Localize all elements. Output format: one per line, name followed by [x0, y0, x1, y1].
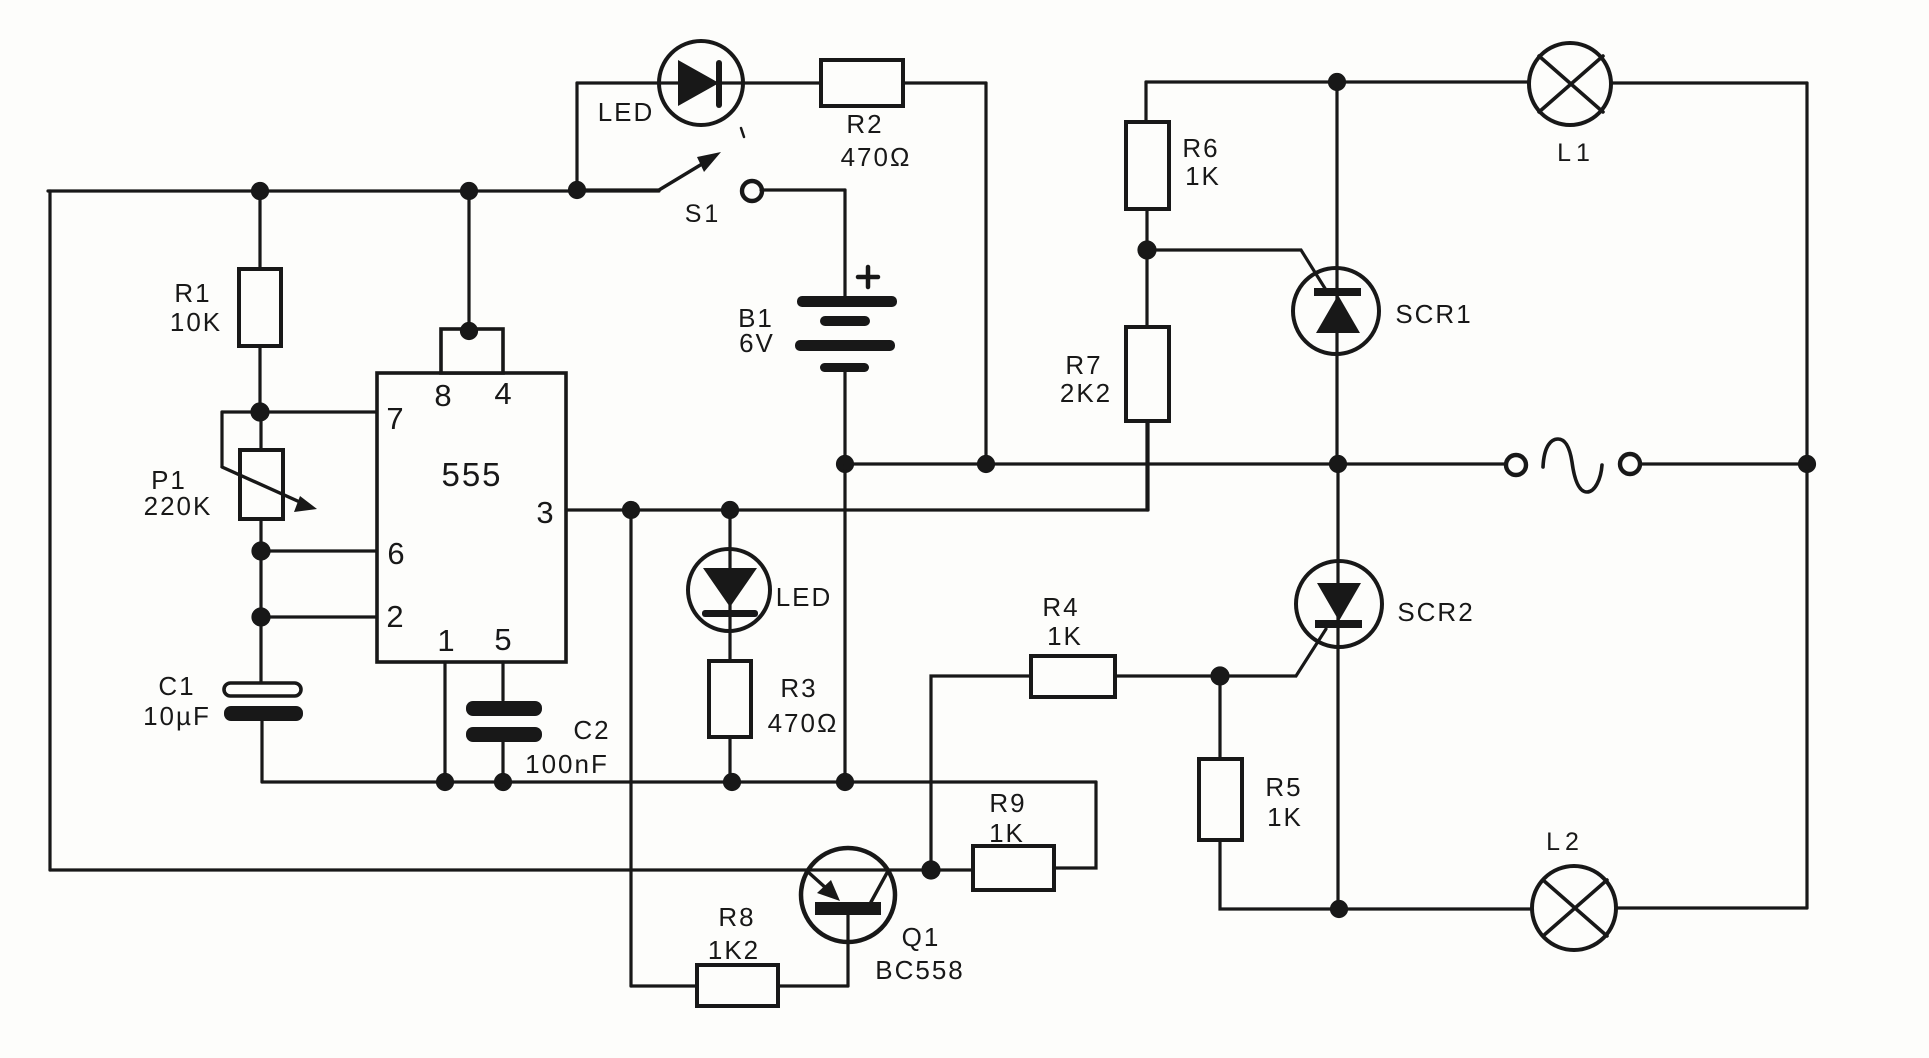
svg-text:Q1: Q1	[902, 922, 941, 952]
wire L2 right lead	[1616, 906, 1807, 909]
svg-text:R7: R7	[1065, 350, 1102, 380]
svg-text:555: 555	[441, 456, 502, 493]
node junction pin3/R8 branch	[624, 503, 639, 518]
resistor R3	[709, 661, 751, 737]
svg-text:2: 2	[386, 599, 403, 634]
wire S1 to battery	[761, 188, 845, 191]
svg-text:R1: R1	[174, 278, 211, 308]
node junction pin3/LED branch	[723, 503, 738, 518]
label R5 value	[1265, 772, 1303, 832]
label C1 value	[143, 671, 211, 731]
resistor R6	[1126, 122, 1169, 209]
svg-text:R2: R2	[846, 109, 883, 139]
resistor R4	[1031, 656, 1115, 697]
svg-text:S1: S1	[685, 200, 722, 228]
stray mark	[741, 128, 744, 137]
wire 555 pin 5 lead	[501, 662, 504, 700]
wire P1 top lead	[259, 412, 262, 450]
wire R8 branch vertical	[629, 510, 632, 986]
switch S1 blade	[577, 188, 658, 191]
switch S1 contact	[742, 181, 762, 201]
svg-text:7: 7	[386, 401, 403, 436]
svg-text:R6: R6	[1182, 133, 1219, 163]
svg-text:1K: 1K	[989, 818, 1025, 848]
node junction rail/LED-S1	[570, 183, 585, 198]
svg-text:R9: R9	[989, 788, 1026, 818]
label R4 value	[1042, 592, 1083, 651]
svg-text:LED: LED	[776, 582, 833, 612]
wire R6 top lead	[1144, 82, 1147, 122]
label LED D2	[776, 582, 833, 612]
wire C1 top lead	[259, 617, 262, 682]
wire Q1 base lead	[846, 915, 849, 986]
wire 555 pin 2	[261, 615, 377, 618]
wire SCR column	[1337, 82, 1338, 909]
wire R5 bottom lead	[1220, 840, 1532, 909]
svg-text:470Ω: 470Ω	[768, 708, 839, 738]
node junction rail/R1	[253, 184, 268, 199]
node junction pin1/rail	[438, 775, 453, 790]
wire R2 right lead	[903, 81, 986, 84]
wire R2 drop to AC line	[984, 83, 987, 464]
node junction SCR column/AC	[1331, 457, 1346, 472]
wire AC feed line	[845, 462, 1506, 465]
wire LED D1 feed	[577, 81, 821, 84]
wire ground rail	[262, 780, 1096, 783]
wire LED D1 top corner	[575, 83, 578, 190]
wire R1 bottom lead	[258, 346, 261, 412]
lamp L2	[1532, 866, 1616, 950]
node junction pin2	[253, 609, 269, 625]
svg-text:LED: LED	[598, 97, 655, 127]
node junction rail/555 pins 8-4	[462, 184, 477, 199]
svg-text:3: 3	[536, 495, 553, 530]
label Q1 type	[875, 922, 965, 985]
svg-text:470Ω: 470Ω	[841, 142, 912, 172]
capacitor C1 (polarized)	[224, 683, 301, 696]
svg-text:4: 4	[494, 376, 511, 411]
svg-text:100nF: 100nF	[525, 749, 609, 779]
diode LED D1	[659, 41, 743, 125]
label R2 value	[841, 109, 912, 172]
node junction pin5/rail	[496, 775, 511, 790]
op-amp U1 555 IC body	[377, 329, 566, 662]
node junction pin7/P1	[252, 404, 268, 420]
svg-text:R8: R8	[718, 902, 755, 932]
svg-text:10µF: 10µF	[143, 701, 211, 731]
wire left outer vertical	[48, 191, 51, 870]
label R3 value	[768, 673, 839, 738]
resistor R1	[239, 269, 281, 346]
resistor R9	[973, 846, 1054, 890]
resistor R2	[821, 60, 903, 106]
wire pin3 riser to R7	[1146, 421, 1149, 510]
wire bottom loop (emitter rail)	[50, 868, 931, 871]
svg-text:BC558: BC558	[875, 955, 965, 985]
svg-text:C1: C1	[158, 671, 195, 701]
wire 555 pin 6	[261, 549, 377, 552]
potentiometer P1	[240, 450, 283, 519]
svg-text:R5: R5	[1265, 772, 1302, 802]
wire R4 left lead	[931, 676, 1031, 870]
wire R7 top lead	[1145, 250, 1148, 327]
label pin numbers	[386, 376, 553, 658]
label C2 value	[525, 715, 610, 779]
node junction right vertical/AC	[1800, 457, 1815, 472]
svg-text:2K2: 2K2	[1060, 378, 1112, 408]
capacitor C2	[466, 701, 542, 716]
node junction Q1 collector/R9	[923, 862, 939, 878]
label L1	[1557, 139, 1595, 167]
wire R9 right lead	[1054, 782, 1096, 868]
node junction SCR2/L2 wire	[1332, 902, 1347, 917]
wire R1 top lead	[258, 191, 261, 269]
wire top right rail right segment	[1611, 81, 1807, 84]
wire C2 bottom lead	[501, 742, 504, 782]
wire SCR1 gate	[1147, 250, 1326, 290]
svg-text:6V: 6V	[739, 328, 775, 358]
wire R6 bottom lead	[1145, 209, 1148, 250]
label R8 value	[708, 902, 760, 965]
label L2	[1546, 828, 1584, 856]
AC source sine	[1543, 439, 1602, 492]
label R7 value	[1060, 350, 1112, 408]
wire R8 right lead	[778, 984, 848, 987]
svg-text:SCR2: SCR2	[1397, 597, 1474, 627]
battery B1	[797, 296, 897, 307]
label SCR2	[1397, 597, 1474, 627]
node junction R4/R5/gate	[1212, 668, 1228, 684]
node junction pin6	[253, 543, 269, 559]
transistor SCR2	[1296, 561, 1382, 647]
wire 555 pin 7	[222, 410, 377, 413]
node junction tab	[462, 324, 477, 339]
svg-text:5: 5	[494, 622, 511, 657]
wire P1 wiper bypass	[220, 412, 223, 466]
wire AC to right vertical	[1641, 462, 1807, 465]
wire to pin2 level	[259, 551, 262, 617]
node junction B1/AC line	[838, 457, 853, 472]
AC source terminals	[1506, 455, 1526, 475]
label R9 value	[989, 788, 1027, 848]
potentiometer P1 wiper arrow	[222, 467, 302, 503]
wire 555 pin 3 output	[566, 508, 1148, 511]
wire LED D2 branch lead	[728, 510, 731, 661]
wire R5 top lead	[1218, 676, 1221, 759]
label 555	[441, 456, 502, 493]
wire R3 bottom lead	[728, 737, 731, 782]
svg-text:L2: L2	[1546, 828, 1584, 856]
node junction R2/AC line	[979, 457, 994, 472]
svg-text:220K: 220K	[144, 491, 213, 521]
svg-text:R4: R4	[1042, 592, 1079, 622]
node junction B1/rail	[838, 775, 853, 790]
transistor SCR1	[1293, 268, 1379, 354]
node junction R6/R7/gate	[1139, 242, 1155, 258]
wire R8 left lead	[631, 984, 697, 987]
wire B1 to ground rail	[843, 464, 846, 782]
svg-text:1K: 1K	[1047, 621, 1083, 651]
wire R9 left lead	[931, 868, 973, 871]
wire SCR2 gate	[1115, 629, 1326, 676]
svg-text:10K: 10K	[170, 307, 222, 337]
label R1 value	[170, 278, 222, 337]
svg-text:1K2: 1K2	[708, 935, 760, 965]
node junction R3/rail	[725, 775, 740, 790]
svg-text:L1: L1	[1557, 139, 1595, 167]
resistor R7	[1126, 327, 1169, 421]
lamp L1	[1529, 43, 1611, 125]
wire 555 supply lead pins 8-4	[467, 191, 470, 330]
wire right outer vertical	[1805, 83, 1808, 908]
svg-text:8: 8	[434, 378, 451, 413]
svg-text:1: 1	[437, 623, 454, 658]
svg-text:1K: 1K	[1185, 161, 1221, 191]
resistor R5	[1199, 759, 1242, 840]
label R6 value	[1182, 133, 1221, 191]
svg-text:6: 6	[387, 536, 404, 571]
svg-text:SCR1: SCR1	[1395, 299, 1472, 329]
wire C1 bottom lead	[260, 721, 263, 782]
svg-text:C2: C2	[573, 715, 610, 745]
label LED D1	[598, 97, 655, 127]
resistor R8	[697, 965, 778, 1006]
label SCR1	[1395, 299, 1472, 329]
label S1	[685, 200, 722, 228]
wire top supply rail	[48, 189, 659, 192]
transistor Q1	[801, 848, 895, 942]
battery B1 plus sign	[858, 267, 878, 287]
wire 555 pin 1 lead	[443, 662, 446, 782]
svg-text:R3: R3	[780, 673, 817, 703]
wire P1 bottom lead	[259, 519, 262, 551]
wire top right rail left segment	[1146, 80, 1529, 83]
wire B1 bottom lead	[843, 372, 846, 464]
wire R7 bottom lead	[1145, 421, 1148, 510]
node junction SCR column/top rail	[1330, 75, 1345, 90]
diode LED D2	[688, 549, 770, 631]
svg-text:1K: 1K	[1267, 802, 1303, 832]
label B1 value	[738, 303, 775, 358]
label P1 value	[144, 465, 213, 521]
